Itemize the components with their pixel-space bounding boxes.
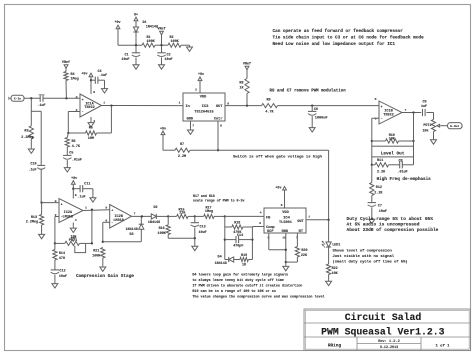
svg-text:+9v: +9v <box>275 186 281 190</box>
ground (C4) <box>104 87 106 89</box>
op-amp IC1B <box>379 101 402 124</box>
wire IC1B feedback <box>372 117 379 119</box>
svg-text:2.2Meg: 2.2Meg <box>26 221 38 225</box>
diode D3 <box>139 224 144 229</box>
svg-text:100K: 100K <box>147 40 156 44</box>
svg-text:6: 6 <box>281 203 283 207</box>
svg-text:7: 7 <box>192 123 194 127</box>
svg-text:C13: C13 <box>200 225 206 229</box>
resistor R2 <box>168 43 181 47</box>
svg-text:.01uF: .01uF <box>398 171 408 175</box>
svg-text:220: 220 <box>179 212 185 216</box>
svg-text:R19: R19 <box>241 254 247 258</box>
svg-text:1 of 1: 1 of 1 <box>435 343 450 348</box>
svg-text:+: + <box>381 106 383 110</box>
svg-text:4: 4 <box>260 210 262 214</box>
svg-text:LM358: LM358 <box>113 219 124 223</box>
wire D1 to rail <box>135 33 137 46</box>
svg-text:8: 8 <box>75 193 77 197</box>
svg-text:Need Low noise and low impedan: Need Low noise and low impedance output … <box>273 42 396 47</box>
ground (C7) <box>371 217 373 219</box>
connector E-In <box>11 95 24 101</box>
svg-text:R4: R4 <box>71 73 75 77</box>
svg-text:High Freq de-emphasis: High Freq de-emphasis <box>377 177 432 182</box>
svg-text:LM358: LM358 <box>63 215 74 219</box>
svg-text:IC3: IC3 <box>202 105 210 109</box>
svg-text:to always leave teeny bit duty: to always leave teeny bit duty cycle off… <box>192 278 284 283</box>
svg-text:R22: R22 <box>332 267 338 271</box>
node rail-D1 <box>135 44 137 46</box>
wire to LED1 <box>328 220 330 242</box>
resistor R1 <box>142 43 155 47</box>
wire R2 to ground <box>181 44 190 46</box>
svg-text:10uF: 10uF <box>59 275 67 279</box>
svg-text:D4: D4 <box>218 255 222 259</box>
svg-text:100K: 100K <box>171 40 180 44</box>
svg-text:-: - <box>381 117 383 121</box>
analog switch IC3 <box>183 93 225 121</box>
ground (C6) <box>311 126 313 128</box>
svg-text:2.2K: 2.2K <box>374 191 383 195</box>
wire GND pin <box>285 233 287 262</box>
node C6 <box>311 104 313 106</box>
wire fb row <box>103 241 142 243</box>
svg-text:C1: C1 <box>124 54 128 58</box>
svg-text:D4 lowers loop gain for extrem: D4 lowers loop gain for extremely large … <box>192 273 288 278</box>
capacitor C5 <box>66 147 68 155</box>
svg-text:C8: C8 <box>399 160 403 164</box>
wire R16 to gnd node <box>168 237 195 239</box>
svg-text:6: 6 <box>105 218 107 222</box>
wire to POT2 <box>433 113 435 120</box>
svg-text:D1: D1 <box>143 21 147 25</box>
net label Level Out <box>371 141 373 146</box>
capacitor C13 <box>194 216 196 222</box>
wire IC3 Cntr <box>217 121 219 150</box>
node GND/RT <box>285 261 287 263</box>
svg-text:R12: R12 <box>376 186 382 190</box>
node C14 left <box>224 238 226 240</box>
svg-text:10uF: 10uF <box>165 58 173 62</box>
resistor R22 <box>327 264 331 275</box>
wire IC2B -in <box>103 221 110 223</box>
resistor R15 <box>177 214 188 218</box>
svg-text:LED1: LED1 <box>332 244 340 248</box>
svg-text:8: 8 <box>227 101 229 105</box>
svg-text:7: 7 <box>405 108 407 112</box>
resistor R19 <box>240 257 249 261</box>
svg-text:+9v: +9v <box>81 73 87 77</box>
wire to IC2A +in <box>42 202 59 204</box>
svg-text:5: 5 <box>105 205 107 209</box>
svg-text:C14: C14 <box>237 234 243 238</box>
resistor R12 <box>371 165 373 183</box>
svg-text:PWM Squeasal Ver1.2.3: PWM Squeasal Ver1.2.3 <box>321 326 445 337</box>
svg-text:1N4148: 1N4148 <box>148 221 160 225</box>
node PWM out <box>327 219 329 221</box>
svg-text:3: 3 <box>55 199 57 203</box>
wire +9v rail bus <box>118 44 142 46</box>
svg-text:1N4148: 1N4148 <box>126 228 138 232</box>
ground (POT2) <box>433 132 435 139</box>
svg-text:+9v: +9v <box>71 177 77 181</box>
svg-text:C2: C2 <box>167 54 171 58</box>
svg-text:1Meg: 1Meg <box>71 78 79 82</box>
svg-text:If PWM driven to absolute cuto: If PWM driven to absolute cutoff it crea… <box>192 284 302 289</box>
node rail-VRef <box>160 44 162 46</box>
svg-text:R7: R7 <box>180 143 184 147</box>
diode D4 <box>225 259 229 261</box>
node R15/R16 <box>167 215 169 217</box>
node C13 <box>194 215 196 217</box>
svg-text:22K: 22K <box>301 254 308 258</box>
node IC1A Vcc <box>90 79 92 81</box>
svg-text:Level Out: Level Out <box>381 151 405 156</box>
diode D1 <box>133 27 138 32</box>
svg-text:Rev: 1.2.2: Rev: 1.2.2 <box>378 340 400 344</box>
svg-text:VDD: VDD <box>282 211 289 215</box>
capacitor C11 <box>73 188 80 190</box>
wire IC2A out <box>83 209 110 212</box>
wire SCP <box>268 233 270 250</box>
svg-text:E-In: E-In <box>14 98 21 101</box>
node IC1A out <box>110 104 112 106</box>
svg-text:1: 1 <box>179 101 181 105</box>
resistor R5 <box>86 131 97 135</box>
svg-text:+9v: +9v <box>114 21 120 25</box>
op-amp IC2B <box>110 205 132 229</box>
svg-text:C11: C11 <box>84 182 90 186</box>
potentiometer POT1 <box>55 242 65 244</box>
svg-text:TS922: TS922 <box>383 113 394 117</box>
ground (IC1A pin4) <box>90 117 92 121</box>
potentiometer POT2 <box>431 120 435 132</box>
svg-text:1uF: 1uF <box>421 105 427 109</box>
svg-text:C12: C12 <box>59 270 65 274</box>
node input <box>30 97 32 99</box>
svg-text:R21: R21 <box>93 249 99 253</box>
resistor R14 <box>54 243 56 249</box>
capacitor C4 <box>91 79 95 81</box>
svg-text:The value changes the compress: The value changes the compression curve … <box>192 294 324 299</box>
svg-text:Compression Gain Stage: Compression Gain Stage <box>76 274 134 279</box>
wire side-chain tap <box>31 110 41 112</box>
svg-text:1: 1 <box>308 214 310 218</box>
wire ladder right rail <box>251 227 253 260</box>
svg-text:10M: 10M <box>88 137 94 141</box>
wire LED to R22 <box>328 247 330 264</box>
svg-text:10uF: 10uF <box>379 210 387 214</box>
svg-text:Circuit Salad: Circuit Salad <box>345 312 422 323</box>
node D3/out <box>141 215 143 217</box>
svg-text:-: - <box>82 110 84 114</box>
svg-text:(small duty cycle off time of: (small duty cycle off time of 5%) <box>333 259 408 264</box>
ground (C1) <box>135 63 137 65</box>
capacitor C2 <box>161 45 163 53</box>
svg-text:C9: C9 <box>422 101 426 105</box>
svg-text:1Meg: 1Meg <box>205 210 213 214</box>
svg-text:1: 1 <box>103 101 105 105</box>
svg-text:Switch is off when gate voltag: Switch is off when gate voltage is high <box>233 154 323 159</box>
capacitor C3 .1uF (input coupling) <box>39 95 41 102</box>
svg-text:+9v: +9v <box>198 73 204 77</box>
node R21 <box>102 241 104 243</box>
svg-text:4.7K: 4.7K <box>72 145 81 149</box>
svg-text:At 5% audio is uncompressed: At 5% audio is uncompressed <box>347 221 420 227</box>
PWM controller IC4 <box>264 208 306 233</box>
svg-text:.1uF: .1uF <box>37 104 45 108</box>
ground (C5) <box>66 166 68 168</box>
capacitor C12 <box>54 260 56 270</box>
node fb-left <box>67 132 69 134</box>
svg-text:+: + <box>111 210 113 214</box>
resistor R10 <box>386 139 399 143</box>
node C13 gnd <box>194 237 196 239</box>
wire E-In to C3 <box>24 97 40 99</box>
ground (IC4) <box>285 262 287 265</box>
ground (C13) <box>194 245 196 247</box>
svg-text:8: 8 <box>93 90 95 94</box>
capacitor C7 <box>371 196 373 203</box>
svg-text:R17 and R18: R17 and R18 <box>193 194 215 198</box>
svg-text:.1uF: .1uF <box>78 195 86 199</box>
op-amp IC2A <box>59 199 83 223</box>
svg-text:C7: C7 <box>378 205 382 209</box>
ground (C12) <box>54 282 56 284</box>
node pot left <box>54 242 56 244</box>
svg-text:.01uF: .01uF <box>72 159 82 163</box>
node IC2A out <box>91 209 93 211</box>
svg-text:1N4148: 1N4148 <box>215 262 227 266</box>
svg-text:OUT: OUT <box>216 105 223 109</box>
svg-text:Just visible with no signal: Just visible with no signal <box>333 254 395 259</box>
wire ladder left rail <box>224 216 226 259</box>
wire OUT <box>306 219 329 221</box>
ground (IC2A pin4) <box>72 223 74 227</box>
svg-text:1K: 1K <box>239 87 244 91</box>
svg-text:R19 can be in a range of 100 t: R19 can be in a range of 100 to 10K or s… <box>192 289 275 294</box>
svg-text:Duty Cycle range 5% to about 9: Duty Cycle range 5% to about 95% <box>347 216 434 222</box>
svg-text:10K: 10K <box>332 272 339 276</box>
svg-text:GND: GND <box>282 230 289 234</box>
wire R7 left <box>163 149 175 151</box>
svg-text:10k: 10k <box>422 128 428 133</box>
node IC1B out <box>412 111 414 113</box>
wire IC2A fb down <box>91 210 93 244</box>
svg-text:R20: R20 <box>301 249 307 253</box>
svg-text:Shows level of compression: Shows level of compression <box>333 249 393 254</box>
svg-text:1K: 1K <box>242 263 247 267</box>
wire Cntr to PWM out <box>190 149 329 151</box>
resistor R7 <box>175 148 190 152</box>
svg-text:R6: R6 <box>72 140 76 144</box>
resistor R9 <box>262 104 278 108</box>
ground (R13) <box>41 233 43 235</box>
node R4 bias <box>65 97 67 99</box>
svg-text:1: 1 <box>85 206 87 210</box>
svg-text:+: + <box>61 204 63 208</box>
svg-text:10K: 10K <box>389 137 396 141</box>
svg-text:D2: D2 <box>153 206 157 210</box>
svg-text:1000uF: 1000uF <box>315 116 328 120</box>
node R8/R9 <box>246 104 248 106</box>
svg-text:2: 2 <box>195 88 197 92</box>
wire IC2A -in down <box>55 216 59 218</box>
svg-text:470: 470 <box>59 257 65 261</box>
wire IC1A feedback <box>68 111 80 113</box>
svg-text:FB: FB <box>266 217 271 221</box>
svg-text:TS12A4515: TS12A4515 <box>194 111 213 115</box>
svg-text:About 23dB of compression poss: About 23dB of compression possible <box>347 227 439 233</box>
ground (R22) <box>328 279 330 281</box>
node C14 right <box>251 238 253 240</box>
ground (R21) <box>102 265 104 267</box>
svg-text:R14: R14 <box>59 252 65 256</box>
svg-text:TL5001: TL5001 <box>279 221 292 225</box>
svg-text:3: 3 <box>76 95 78 99</box>
svg-text:Can operate as feed forward or: Can operate as feed forward or feedback … <box>273 29 404 34</box>
node Cntr <box>217 149 219 151</box>
svg-text:6: 6 <box>220 123 222 127</box>
svg-text:.1uF: .1uF <box>99 74 107 78</box>
resistor R21 <box>101 248 105 259</box>
svg-text:R5: R5 <box>89 127 93 131</box>
ground (C2) <box>161 63 163 65</box>
diode D2 <box>151 214 156 219</box>
svg-text:100K: 100K <box>158 232 167 236</box>
resistor R8 <box>245 79 249 94</box>
svg-text:In: In <box>186 105 190 109</box>
svg-text:E-Out: E-Out <box>450 125 459 128</box>
svg-text:10uF: 10uF <box>199 231 207 235</box>
svg-text:POT2: POT2 <box>423 124 431 128</box>
capacitor C6 <box>311 106 313 112</box>
svg-text:4: 4 <box>75 218 77 222</box>
svg-text:Tie side chain input to C3 or: Tie side chain input to C3 or at C6 node… <box>273 35 425 40</box>
node R11 <box>371 164 373 166</box>
svg-text:R9 and C7 remove PWM modulatio: R9 and C7 remove PWM modulation <box>270 89 347 94</box>
wire C3 to IC1A +in <box>43 97 80 99</box>
node IC2A Vcc <box>72 188 74 190</box>
ground (C11) <box>92 196 94 198</box>
node fb2 <box>412 140 414 142</box>
svg-text:10uF: 10uF <box>121 58 129 62</box>
resistor R4 <box>64 72 68 81</box>
connector E-Out <box>448 123 463 129</box>
resistor R13 <box>41 203 43 215</box>
LED LED1 <box>326 242 331 247</box>
op-amp IC1A <box>80 94 102 117</box>
wire to FB pin <box>225 215 264 217</box>
capacitor C14 <box>225 239 236 241</box>
ground (rail right) <box>189 45 191 47</box>
wire pot wiper loop <box>75 243 86 252</box>
wire RT <box>296 233 298 247</box>
resistor R3 <box>30 98 32 126</box>
svg-text:7: 7 <box>134 212 136 216</box>
node SCP/GND <box>285 249 287 251</box>
svg-text:IC4: IC4 <box>283 216 291 220</box>
svg-text:5: 5 <box>375 97 377 101</box>
svg-text:2.2K: 2.2K <box>377 171 386 175</box>
svg-text:R9: R9 <box>266 99 270 103</box>
node IC2A in <box>40 201 42 203</box>
capacitor C8 <box>389 164 400 166</box>
wire IC1A out <box>102 105 184 107</box>
svg-text:VDD: VDD <box>200 96 207 100</box>
svg-text:scale range of PWM to 0-3v: scale range of PWM to 0-3v <box>193 199 244 203</box>
wire Comp pin <box>252 226 264 228</box>
svg-text:SCP: SCP <box>267 230 273 234</box>
capacitor C1 <box>135 45 137 53</box>
svg-text:100K: 100K <box>92 254 101 258</box>
svg-text:R11: R11 <box>377 159 383 163</box>
svg-text:R13: R13 <box>31 216 37 220</box>
node fb1 <box>371 140 373 142</box>
wire R9 to IC1B <box>278 105 380 107</box>
resistor R20 <box>295 247 299 258</box>
svg-text:1N4148: 1N4148 <box>146 26 158 30</box>
svg-text:R16: R16 <box>159 227 165 231</box>
wire IC2B out <box>132 215 152 217</box>
ground (IC3 GND) <box>190 121 192 128</box>
svg-text:+: + <box>82 99 84 103</box>
svg-text:D3: D3 <box>129 233 133 237</box>
svg-text:4.7K: 4.7K <box>265 110 274 114</box>
capacitor C9 <box>422 109 424 116</box>
svg-text:Cntr: Cntr <box>214 117 223 122</box>
svg-text:2.2M: 2.2M <box>178 155 186 159</box>
resistor R11 <box>372 164 375 166</box>
svg-text:TS922: TS922 <box>84 106 95 110</box>
ground (R3) <box>30 147 32 149</box>
node FB ladder <box>224 215 226 217</box>
wire R1 to VRef node <box>155 44 168 46</box>
title block <box>304 309 471 351</box>
resistor R17 <box>195 215 204 217</box>
svg-text:R18: R18 <box>234 221 240 225</box>
svg-text:OUT: OUT <box>297 220 304 224</box>
svg-text:RRing: RRing <box>328 344 342 349</box>
wire IC3 OUT <box>225 105 262 107</box>
wire IC1B out <box>402 112 421 114</box>
svg-text:3: 3 <box>259 221 261 225</box>
node pot right <box>91 242 93 244</box>
svg-text:R3: R3 <box>24 129 28 133</box>
svg-text:.1uF: .1uF <box>28 169 36 173</box>
resistor R16 <box>167 216 169 224</box>
svg-text:9-12-2013: 9-12-2013 <box>380 346 398 350</box>
svg-text:R8: R8 <box>239 81 243 85</box>
svg-text:470pF: 470pF <box>233 244 243 248</box>
svg-text:C10: C10 <box>30 163 36 167</box>
resistor R18 <box>225 226 232 228</box>
resistor R6 <box>67 133 68 138</box>
